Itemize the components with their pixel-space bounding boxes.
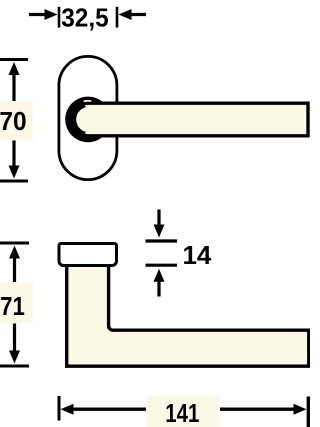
dim 70 top tick [0, 58, 28, 61]
dim 141 left arrow [61, 404, 147, 415]
label patch 71 [0, 283, 33, 324]
dim 14 upper tick [146, 239, 178, 242]
dim 70 bottom tick [0, 180, 28, 183]
dim 32,5 left tick [58, 7, 61, 28]
svg-text:71: 71 [0, 292, 25, 321]
dim 70 up arrow [9, 62, 20, 101]
dim 32,5 left arrow [29, 9, 58, 20]
dim 141 right tick [307, 397, 310, 427]
neck top white sliver [84, 100, 92, 103]
lever L-profile (side view) [67, 265, 309, 366]
svg-text:141: 141 [165, 399, 199, 427]
label patch 70 [0, 102, 33, 141]
dim 32,5 right arrow [119, 9, 147, 20]
svg-text:70: 70 [0, 107, 27, 136]
lever neck inner arc [74, 105, 85, 134]
dim 14 upper arrow [154, 210, 165, 238]
lever bar (front view) [72, 103, 308, 136]
dim 141 right arrow [220, 404, 307, 415]
svg-text:14: 14 [182, 240, 211, 270]
dim 32,5 right tick [116, 7, 119, 28]
dim 71 up arrow [9, 246, 20, 283]
rosette cap (side view) [59, 244, 117, 266]
dim 141 left tick [58, 396, 61, 421]
dim 71 top tick [0, 242, 29, 245]
dim 14 lower arrow [154, 269, 165, 297]
lever neck circle [65, 97, 111, 143]
label patch 141 [146, 396, 220, 427]
svg-text:32,5: 32,5 [61, 4, 109, 33]
dim 14 lower tick [146, 264, 178, 267]
dim 71 down arrow [9, 324, 20, 364]
rosette stadium (front view) [59, 56, 117, 179]
dim 71 bottom tick [0, 365, 29, 368]
dim 70 down arrow [9, 141, 20, 179]
